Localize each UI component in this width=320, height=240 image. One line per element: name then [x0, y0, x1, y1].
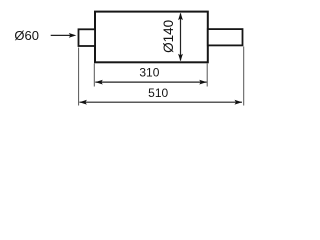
- leader arrowhead: [69, 33, 77, 38]
- outlet pipe rectangle: [208, 29, 243, 45]
- muffler body rectangle: [95, 12, 208, 63]
- 510 arrowhead left: [79, 100, 87, 105]
- 310 dimension line: [95, 81, 206, 83]
- 310 arrowhead left: [95, 80, 103, 85]
- Ø140 dimension line: [180, 14, 182, 61]
- extension line body left: [93, 64, 95, 87]
- Ø140 arrowhead top: [178, 13, 183, 21]
- 510 dimension line: [79, 101, 242, 103]
- 310 arrowhead right: [199, 80, 207, 85]
- extension line overall left: [78, 48, 80, 106]
- extension line body right: [206, 64, 208, 87]
- svg-text:Ø60: Ø60: [14, 28, 39, 43]
- svg-text:Ø140: Ø140: [161, 20, 176, 53]
- leader arrow line for Ø60: [51, 34, 71, 36]
- svg-text:510: 510: [148, 86, 168, 100]
- 510 arrowhead right: [235, 100, 243, 105]
- extension line overall right: [243, 47, 245, 106]
- Ø140 arrowhead bottom: [178, 54, 183, 62]
- inlet pipe rectangle: [79, 29, 96, 46]
- svg-text:310: 310: [139, 65, 159, 79]
